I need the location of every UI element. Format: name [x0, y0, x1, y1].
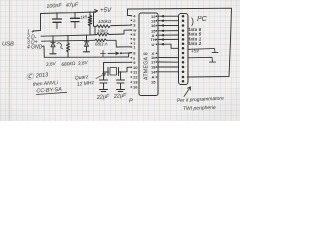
wire ground bus right — [95, 53, 131, 58]
svg-text:3,6V: 3,6V — [78, 60, 89, 67]
zener D1 3V6 — [50, 36, 56, 54]
wire R4 step down to IC — [106, 40, 130, 47]
capacitor C4 22pF — [117, 72, 125, 92]
wire +5V stub on connector — [188, 49, 218, 53]
svg-text:16: 16 — [151, 23, 156, 28]
svg-text:15: 15 — [151, 80, 156, 85]
node rail-cap1 — [56, 12, 57, 13]
arrow +5V — [95, 10, 98, 13]
svg-text:): ) — [191, 16, 194, 26]
annotation arrow programmer — [184, 87, 191, 97]
svg-text:P: P — [129, 99, 133, 105]
node arrow junction — [108, 52, 131, 55]
resistor R5 vertical 680k — [67, 36, 70, 57]
svg-text:68Ω Λ: 68Ω Λ — [95, 42, 108, 47]
IC U1 box ATMEGA8 — [139, 13, 158, 96]
ground symbol under R5 area — [101, 51, 106, 57]
wire long loop top from pin4 — [128, 8, 232, 77]
connector pins — [182, 15, 185, 83]
svg-text:+5v: +5v — [191, 48, 200, 55]
node D2 top — [86, 35, 87, 36]
IC right pin numbers — [151, 14, 157, 85]
node crystal left cap — [103, 71, 104, 72]
IC left pin numbers — [132, 14, 138, 90]
wire crystal left to pin9 — [104, 62, 131, 72]
wires IC to connector upper — [158, 15, 178, 17]
wire USB D- line — [41, 35, 97, 37]
label data lines — [188, 27, 202, 46]
resistor R1 pullup 1k5 vertical — [88, 12, 91, 35]
resistor R3 10k horizontal — [97, 33, 109, 36]
wire R2 to IC pin3 — [111, 24, 131, 26]
resistor R4 68R in D+ — [95, 39, 106, 42]
svg-text:TWI peripherie: TWI peripherie — [183, 105, 216, 112]
svg-text:10kΩ: 10kΩ — [97, 29, 108, 34]
ground symbol connector — [188, 57, 216, 62]
IC right pin dots — [156, 15, 158, 77]
svg-text:16: 16 — [133, 85, 138, 90]
svg-text:100kΩ: 100kΩ — [98, 19, 112, 24]
svg-text:ATMEGA 8: ATMEGA 8 — [144, 52, 150, 80]
underline CC-BY-SA — [36, 92, 67, 94]
node crystal right cap — [120, 71, 121, 72]
capacitor C2 4.7uF — [71, 13, 80, 28]
capacitor C3 22pF — [100, 72, 108, 92]
svg-text:I²C: I²C — [197, 14, 208, 23]
svg-text:1k5: 1k5 — [80, 14, 88, 20]
svg-text:data 2: data 2 — [188, 41, 202, 46]
node R5 top — [67, 35, 68, 36]
svg-text:680kΩ: 680kΩ — [61, 61, 76, 68]
wires IC to connector lower — [158, 57, 178, 59]
doodle near zener D1 — [57, 43, 63, 49]
node D1 top — [52, 35, 53, 36]
resistor R2 10k horizontal — [97, 25, 110, 28]
svg-text:+5V: +5V — [100, 7, 112, 14]
arrow quarz annotation — [96, 74, 106, 79]
svg-text:USB: USB — [2, 42, 14, 48]
svg-text:3,6V: 3,6V — [46, 61, 57, 68]
svg-text:U: U — [152, 42, 155, 47]
wire USB GND down to bus — [42, 46, 95, 57]
svg-text:47µF: 47µF — [66, 2, 80, 9]
wire +5V riser to pullups — [94, 12, 98, 35]
wire USB + riser — [33, 14, 41, 32]
node rail-cap2 — [74, 12, 75, 13]
wire R3 step to IC pin — [109, 30, 130, 35]
connector J1 box — [179, 14, 189, 85]
IC left pin dots — [131, 15, 133, 88]
node R1 top — [89, 12, 90, 13]
svg-text:4 GND: 4 GND — [27, 45, 43, 51]
wire +5V top rail — [41, 12, 96, 14]
wire crystal right to pin10 — [119, 67, 131, 72]
zener D2 3V6 — [84, 35, 90, 52]
crystal X1 12MHz — [108, 68, 119, 76]
wire USB D+ line — [42, 39, 96, 42]
capacitor C1 100nF — [53, 13, 62, 29]
